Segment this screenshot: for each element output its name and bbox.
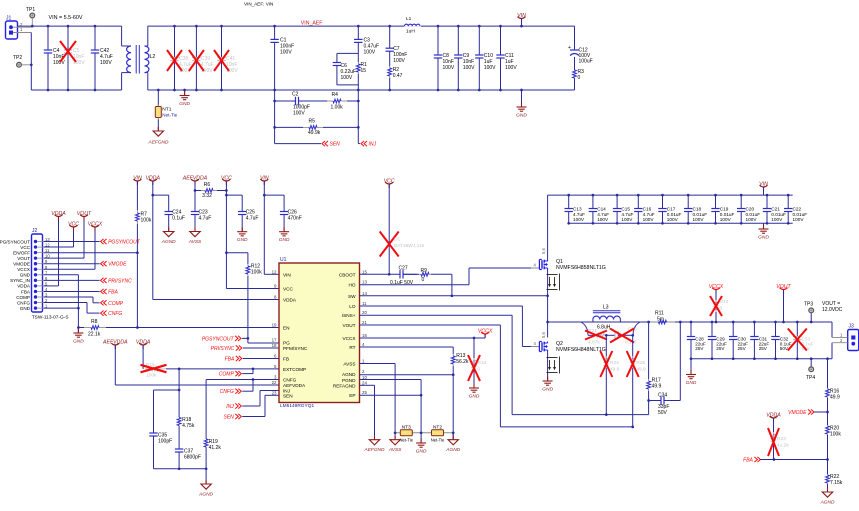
svg-text:49.9: 49.9 (610, 367, 620, 373)
svg-text:INJ: INJ (226, 404, 234, 410)
svg-text:AVSS: AVSS (343, 362, 355, 367)
svg-text:GND: GND (542, 387, 553, 393)
svg-text:VMODE: VMODE (788, 410, 807, 416)
svg-text:0.01uF: 0.01uF (667, 212, 682, 217)
svg-text:4.7uF: 4.7uF (573, 212, 585, 217)
svg-text:100V: 100V (293, 111, 305, 117)
svg-text:R25: R25 (636, 360, 645, 366)
svg-text:C18: C18 (693, 207, 702, 212)
svg-text:FBA: FBA (743, 458, 753, 464)
svg-text:ISNS+: ISNS+ (342, 313, 356, 318)
svg-text:EXTCOMP: EXTCOMP (283, 367, 306, 372)
svg-text:12: 12 (272, 269, 277, 274)
svg-text:C16: C16 (643, 207, 652, 212)
svg-text:470nF: 470nF (288, 216, 302, 222)
svg-text:GND: GND (758, 235, 769, 241)
svg-text:GND: GND (20, 273, 31, 278)
svg-text:100k: 100k (141, 218, 152, 224)
svg-text:1uH: 1uH (406, 29, 415, 35)
svg-text:C20: C20 (746, 207, 755, 212)
svg-text:EN: EN (283, 326, 290, 331)
svg-text:23: 23 (272, 390, 277, 395)
svg-text:11: 11 (362, 301, 367, 306)
svg-text:22: 22 (272, 380, 277, 385)
svg-text:3.32: 3.32 (202, 193, 212, 199)
svg-text:L3: L3 (603, 305, 609, 311)
svg-text:100V: 100V (341, 75, 353, 81)
svg-text:100V: 100V (667, 217, 679, 222)
svg-text:100V: 100V (443, 65, 455, 71)
svg-text:5,6: 5,6 (541, 248, 546, 254)
svg-text:CNFG: CNFG (283, 378, 297, 383)
svg-text:TP1: TP1 (26, 7, 35, 13)
svg-text:AGND: AGND (820, 500, 835, 506)
svg-text:VIN: VIN (283, 272, 291, 277)
svg-text:AEFGND: AEFGND (148, 140, 170, 146)
svg-text:18: 18 (272, 343, 277, 348)
svg-text:56.2k: 56.2k (456, 359, 469, 365)
svg-text:24: 24 (362, 380, 367, 385)
svg-text:0: 0 (478, 367, 481, 373)
svg-text:100V: 100V (643, 217, 655, 222)
svg-text:CNFG: CNFG (220, 389, 234, 395)
svg-text:0: 0 (720, 306, 723, 312)
svg-text:HO: HO (348, 283, 355, 288)
svg-text:J2: J2 (32, 228, 38, 234)
svg-text:FB: FB (283, 357, 289, 362)
svg-text:PGND: PGND (342, 378, 356, 383)
svg-text:COMP: COMP (16, 295, 30, 300)
svg-text:EN/OFF: EN/OFF (13, 250, 30, 255)
svg-text:TP4: TP4 (806, 375, 815, 381)
svg-text:L2: L2 (150, 54, 156, 60)
svg-text:4.7uF: 4.7uF (621, 212, 633, 217)
svg-text:GND: GND (237, 237, 248, 243)
svg-text:5m: 5m (657, 317, 664, 323)
svg-text:NVMFS6H848NLT1G: NVMFS6H848NLT1G (556, 347, 606, 353)
svg-text:22.1k: 22.1k (88, 332, 101, 338)
svg-text:C27: C27 (399, 266, 408, 272)
svg-text:16: 16 (362, 333, 367, 338)
svg-text:6800pF: 6800pF (184, 455, 201, 461)
svg-text:VCC: VCC (283, 287, 294, 292)
svg-text:TP3: TP3 (804, 302, 813, 308)
svg-text:C19: C19 (720, 207, 729, 212)
svg-text:14: 14 (362, 291, 367, 296)
svg-text:100V: 100V (53, 60, 65, 66)
svg-text:VDDA: VDDA (17, 284, 31, 289)
svg-text:GND: GND (73, 339, 84, 345)
svg-text:REFAGND: REFAGND (333, 383, 356, 388)
svg-text:C14: C14 (597, 207, 606, 212)
svg-text:4.87k: 4.87k (588, 340, 600, 346)
svg-text:1.00k: 1.00k (331, 105, 344, 111)
svg-text:NT2: NT2 (433, 424, 442, 430)
svg-text:AEFGND: AEFGND (364, 447, 386, 453)
svg-text:GND: GND (516, 113, 527, 119)
svg-text:PFM/SYNC: PFM/SYNC (283, 346, 308, 351)
svg-text:LO: LO (349, 304, 356, 309)
svg-text:100V: 100V (621, 217, 633, 222)
svg-text:0: 0 (578, 75, 581, 81)
svg-text:L1: L1 (406, 16, 412, 22)
svg-text:100V: 100V (100, 60, 112, 66)
svg-text:SEN: SEN (224, 415, 235, 421)
svg-text:AVSS: AVSS (188, 239, 202, 245)
svg-text:AGND: AGND (198, 492, 213, 498)
svg-text:R6: R6 (204, 182, 211, 188)
svg-text:R4: R4 (332, 92, 339, 98)
svg-text:17: 17 (272, 338, 277, 343)
svg-text:100V: 100V (771, 217, 783, 222)
svg-text:TP2: TP2 (13, 55, 22, 61)
svg-text:VOUT: VOUT (342, 323, 355, 328)
svg-text:C15: C15 (621, 207, 630, 212)
svg-text:AGND: AGND (161, 239, 176, 245)
svg-text:12.0VDC: 12.0VDC (822, 307, 843, 313)
svg-text:100V: 100V (484, 65, 496, 71)
svg-text:R9: R9 (421, 268, 428, 274)
svg-text:100V: 100V (393, 58, 405, 64)
svg-text:R8: R8 (91, 319, 98, 325)
svg-text:4.7uF: 4.7uF (199, 216, 212, 222)
svg-text:25V: 25V (738, 346, 747, 351)
svg-text:0.01uF: 0.01uF (693, 212, 708, 217)
svg-text:11: 11 (45, 248, 50, 253)
svg-text:49.9k: 49.9k (308, 130, 321, 136)
svg-text:+: + (568, 45, 571, 51)
svg-text:AGND: AGND (445, 447, 460, 453)
svg-text:LM5149RGYQ1: LM5149RGYQ1 (280, 403, 314, 409)
svg-text:C22: C22 (793, 207, 802, 212)
svg-text:SW: SW (348, 294, 356, 299)
svg-text:PRI/SYNC: PRI/SYNC (108, 278, 132, 284)
svg-text:100V: 100V (364, 50, 376, 56)
svg-text:100k: 100k (251, 270, 262, 276)
svg-text:15: 15 (362, 269, 367, 274)
svg-text:PGSYNCOUT: PGSYNCOUT (108, 240, 141, 246)
svg-text:FBA: FBA (108, 289, 118, 295)
svg-text:RT: RT (349, 345, 355, 350)
svg-text:21: 21 (362, 320, 367, 325)
svg-text:C13: C13 (573, 207, 582, 212)
svg-text:NVMFS6H858NLT1G: NVMFS6H858NLT1G (556, 265, 606, 271)
svg-text:R23: R23 (777, 436, 786, 442)
svg-text:AGND: AGND (342, 372, 356, 377)
svg-text:0.47: 0.47 (393, 73, 403, 79)
svg-text:15: 15 (361, 68, 367, 74)
svg-text:100pF: 100pF (158, 439, 172, 445)
svg-text:49.9: 49.9 (830, 395, 840, 401)
svg-text:0.01uF: 0.01uF (746, 212, 761, 217)
svg-text:VCCX: VCCX (17, 267, 30, 272)
svg-text:R5: R5 (309, 119, 316, 125)
svg-text:100V: 100V (505, 65, 517, 71)
svg-text:GND: GND (686, 380, 697, 386)
svg-text:13: 13 (362, 280, 367, 285)
svg-text:VDDA: VDDA (283, 298, 297, 303)
svg-text:GND: GND (179, 101, 190, 107)
svg-text:U1: U1 (280, 257, 287, 263)
svg-text:7.15k: 7.15k (830, 480, 843, 486)
svg-text:25: 25 (362, 390, 367, 395)
svg-text:EP: EP (349, 393, 355, 398)
svg-text:GND: GND (469, 394, 480, 400)
svg-text:PG/SYNCOUT: PG/SYNCOUT (0, 239, 30, 244)
svg-text:R14: R14 (478, 360, 487, 366)
svg-text:Net-Tie: Net-Tie (162, 113, 177, 118)
svg-text:SEN: SEN (330, 142, 341, 148)
svg-text:SEN: SEN (283, 393, 293, 398)
svg-text:GND: GND (20, 306, 31, 311)
svg-text:AVSS: AVSS (388, 447, 402, 453)
svg-text:19: 19 (272, 323, 277, 328)
svg-text:GND: GND (279, 237, 290, 243)
svg-text:J3: J3 (849, 324, 855, 330)
svg-text:0.01uF: 0.01uF (720, 212, 735, 217)
svg-text:100uF: 100uF (579, 59, 593, 65)
svg-text:41.2k: 41.2k (209, 445, 222, 451)
svg-text:25V: 25V (695, 346, 704, 351)
svg-text:25V: 25V (759, 346, 768, 351)
svg-text:4.75k: 4.75k (182, 423, 195, 429)
svg-text:C34: C34 (658, 393, 667, 399)
svg-text:20: 20 (362, 310, 367, 315)
svg-text:AEFVDDA: AEFVDDA (283, 383, 306, 388)
svg-text:PGSYNCOUT: PGSYNCOUT (202, 336, 235, 342)
svg-text:25V: 25V (716, 346, 725, 351)
svg-text:6.8uH: 6.8uH (597, 325, 611, 331)
svg-text:100V: 100V (746, 217, 758, 222)
svg-text:100V: 100V (573, 217, 585, 222)
svg-text:COMP: COMP (219, 372, 235, 378)
svg-text:VCC: VCC (20, 245, 30, 250)
svg-text:D1: D1 (394, 237, 400, 243)
svg-text:PG: PG (283, 341, 290, 346)
svg-text:100V: 100V (280, 50, 292, 56)
svg-text:R24: R24 (610, 360, 619, 366)
svg-text:BAT46WJ,115: BAT46WJ,115 (394, 243, 425, 249)
svg-text:SYNC_IN: SYNC_IN (10, 278, 30, 283)
svg-text:100k: 100k (830, 432, 841, 438)
svg-text:0.01uF: 0.01uF (793, 212, 808, 217)
svg-text:VIN = 5.5-60V: VIN = 5.5-60V (49, 15, 83, 21)
svg-text:VIN_AEF: VIN: VIN_AEF: VIN (244, 2, 273, 7)
svg-text:4.7uF: 4.7uF (246, 216, 259, 222)
svg-text:100V: 100V (597, 217, 609, 222)
svg-text:C17: C17 (667, 207, 676, 212)
svg-text:0.1uF: 0.1uF (172, 216, 185, 222)
svg-text:J1: J1 (6, 16, 12, 22)
svg-text:C2: C2 (292, 92, 299, 98)
svg-text:100V: 100V (793, 217, 805, 222)
svg-text:5,6: 5,6 (541, 332, 546, 338)
svg-text:VOUT: VOUT (17, 256, 30, 261)
svg-text:C21: C21 (771, 207, 780, 212)
svg-text:FBA: FBA (21, 289, 31, 294)
svg-text:R10: R10 (720, 299, 729, 305)
svg-text:CNFG: CNFG (108, 311, 122, 317)
svg-text:100V: 100V (720, 217, 732, 222)
svg-text:COMP: COMP (108, 301, 124, 307)
svg-text:CBOOT: CBOOT (339, 272, 356, 277)
svg-text:49.9: 49.9 (636, 367, 646, 373)
svg-text:CNFG: CNFG (17, 300, 30, 305)
svg-text:41.2k: 41.2k (777, 443, 789, 449)
svg-text:50V: 50V (658, 410, 668, 416)
svg-text:0.01uF: 0.01uF (771, 212, 786, 217)
svg-text:49.9: 49.9 (652, 384, 662, 390)
svg-text:GND: GND (416, 449, 427, 455)
svg-text:100V: 100V (693, 217, 705, 222)
svg-text:0: 0 (422, 277, 425, 283)
svg-text:4.7uF: 4.7uF (597, 212, 609, 217)
svg-text:VIN_AEF: VIN_AEF (301, 21, 323, 27)
svg-text:VMODE: VMODE (13, 262, 30, 267)
svg-text:FBA: FBA (225, 357, 235, 363)
svg-text:100V: 100V (463, 65, 475, 71)
svg-text:PRI/SYNC: PRI/SYNC (211, 346, 235, 352)
svg-text:INJ: INJ (369, 142, 377, 148)
svg-text:VMODE: VMODE (108, 262, 127, 268)
svg-text:VCCX: VCCX (342, 336, 356, 341)
svg-text:Net-Tie: Net-Tie (400, 437, 414, 442)
svg-text:4.7uF: 4.7uF (643, 212, 655, 217)
svg-text:Net-Tie: Net-Tie (431, 437, 445, 442)
svg-text:100k: 100k (146, 373, 157, 379)
svg-text:NT3: NT3 (402, 424, 411, 430)
svg-text:TSW-113-07-G-S: TSW-113-07-G-S (32, 315, 69, 321)
